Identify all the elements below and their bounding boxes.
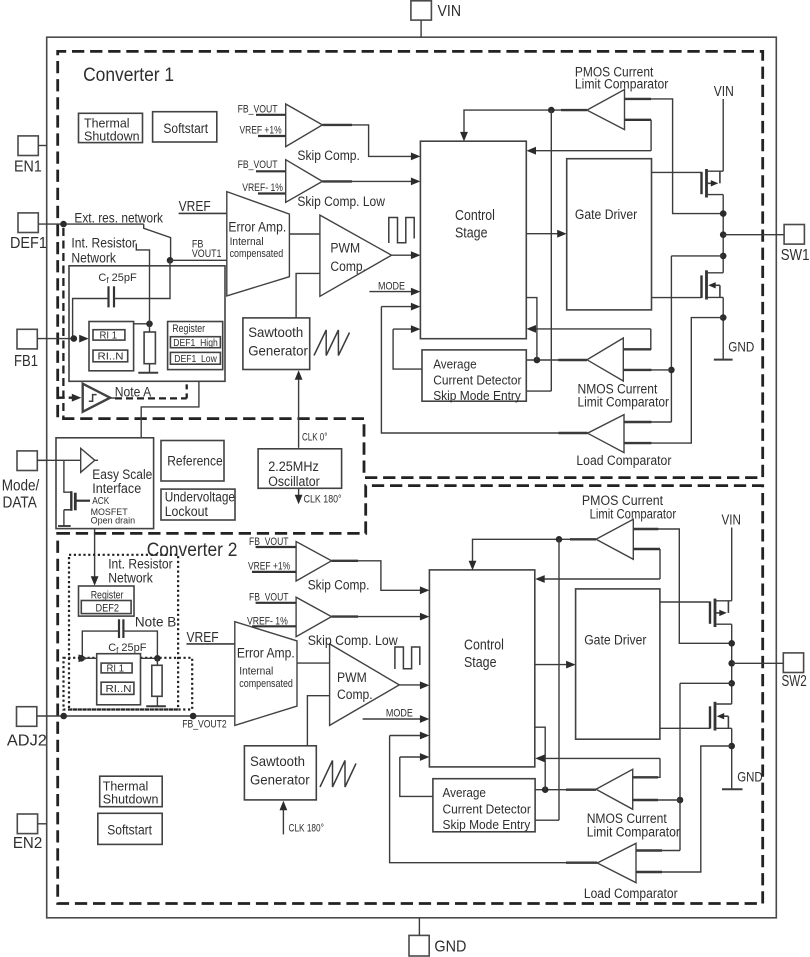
wire PMOS comp upper input sense conv1 — [625, 98, 652, 100]
PWM comparator conv2 — [330, 644, 400, 726]
wire NMOS comp upper input to control stage conv1 — [623, 348, 651, 350]
oscillator block — [258, 449, 342, 489]
wire skip comp low output conv1 — [322, 180, 352, 182]
wire PWM output conv2 — [399, 684, 420, 686]
svg-text:Network: Network — [108, 570, 153, 586]
wire PMOS comp output branch down to current detector conv1 — [526, 110, 551, 391]
wire load comp lower input to NMOS source conv2 — [636, 871, 662, 873]
svg-text:Shutdown: Shutdown — [103, 791, 159, 806]
wire NMOS source to ground conv1 — [722, 297, 724, 359]
skip comparator low conv2 — [296, 597, 331, 637]
pin DEF1 — [18, 213, 38, 233]
node dot PMOS sense conv2 — [728, 640, 735, 647]
svg-text:VREF +1%: VREF +1% — [240, 124, 282, 136]
dashed optional box left edge conv1 — [62, 228, 64, 418]
svg-text:Note B: Note B — [135, 614, 176, 630]
undervoltage lockout block — [161, 489, 235, 520]
svg-text:Comp.: Comp. — [337, 687, 373, 703]
svg-text:compensated: compensated — [239, 678, 293, 690]
svg-text:SW2: SW2 — [782, 673, 807, 690]
register block conv1 — [168, 322, 223, 370]
skip comparator conv1 — [286, 104, 323, 147]
gate driver conv1 — [567, 159, 652, 310]
pin SW1 — [784, 225, 804, 245]
error amplifier conv1 — [227, 192, 290, 296]
sawtooth generator conv2 — [244, 746, 316, 800]
control stage conv2 — [429, 570, 534, 767]
svg-text:Error Amp.: Error Amp. — [228, 219, 286, 235]
wire to SW2 pin — [732, 662, 784, 664]
PMOS transistor conv2 — [660, 601, 710, 603]
capacitor Cf conv1 — [107, 286, 109, 307]
svg-text:DEF1_Low: DEF1_Low — [174, 353, 217, 365]
node dot NMOS comp output conv1 — [534, 357, 541, 364]
hysteresis glyph note A — [89, 395, 97, 402]
wire FB1 into resistor ladder — [37, 338, 75, 340]
wire NMOS comp lower input sense conv2 — [633, 799, 658, 801]
skip comparator conv2 — [296, 542, 331, 582]
wire PMOS output branch to current detector conv2 — [535, 539, 559, 820]
sawtooth generator conv1 — [243, 318, 310, 370]
wire capacitor right to FB node conv1 — [114, 260, 170, 298]
svg-text:Stage: Stage — [464, 655, 497, 671]
wire ladder input conv2 — [79, 654, 89, 662]
wire VREF-1% input skip low conv1 — [258, 192, 286, 194]
wire register link to easy scale — [141, 381, 199, 438]
ground bar tap resistor conv2 — [146, 705, 166, 707]
svg-text:Shutdown: Shutdown — [84, 129, 140, 144]
wire error amp output conv2 — [297, 662, 330, 664]
NMOS current limit comparator conv1 — [587, 338, 623, 381]
svg-text:Load Comparator: Load Comparator — [584, 886, 678, 901]
svg-text:Register: Register — [172, 323, 205, 335]
register DEF2 — [81, 601, 131, 614]
average current detector block conv1 — [422, 350, 526, 401]
svg-text:MODE: MODE — [386, 708, 413, 720]
resistor RI..N conv1 — [93, 350, 128, 362]
wire NMOS drain sense line conv2 — [680, 683, 732, 850]
node dot PMOS comp output conv2 — [556, 536, 563, 543]
node dot sense junction conv2 — [677, 797, 684, 804]
load comparator conv2 — [597, 843, 636, 882]
dotted resistor network box conv2 — [69, 555, 178, 710]
wire MODE input conv1 — [369, 291, 411, 293]
svg-text:Register: Register — [91, 589, 124, 601]
softstart block conv2 — [98, 813, 162, 844]
wire FB_VOUT input conv1 — [256, 114, 286, 116]
node dot SW1 conv1 — [720, 231, 727, 238]
wire sawtooth to PWM comp conv2 — [307, 696, 329, 746]
wire FB node to error amp conv1 — [170, 259, 227, 261]
note A comparator conv1 — [83, 384, 110, 412]
svg-text:Converter 1: Converter 1 — [83, 65, 174, 86]
svg-text:Sawtooth: Sawtooth — [248, 324, 303, 340]
wire NMOS comp output conv2 — [566, 789, 596, 791]
wire tap riser conv1 — [136, 244, 149, 324]
svg-text:Limit Comparator: Limit Comparator — [587, 824, 681, 839]
resistor ladder box conv1 — [89, 322, 134, 371]
svg-text:Current Detector: Current Detector — [443, 801, 532, 816]
NMOS transistor conv1 — [652, 297, 702, 299]
node dot ADJ2 junction — [60, 713, 67, 720]
register DEF1_High conv1 — [170, 337, 220, 348]
wire skip comp output to control stage conv1 — [322, 124, 352, 126]
node dot NMOS sense conv1 — [720, 253, 727, 260]
svg-text:CLK 180°: CLK 180° — [289, 823, 324, 835]
register DEF1_Low conv1 — [170, 352, 220, 364]
svg-text:Ext. res. network: Ext. res. network — [74, 210, 163, 225]
register block conv2 — [79, 586, 135, 616]
wire skip comp low output conv2 — [332, 615, 359, 617]
svg-text:DEF1: DEF1 — [10, 235, 47, 252]
svg-text:RI 1: RI 1 — [107, 662, 125, 674]
svg-text:Int. Resistor: Int. Resistor — [71, 234, 136, 250]
svg-text:GND: GND — [728, 339, 754, 355]
svg-text:2.25MHz: 2.25MHz — [268, 459, 319, 475]
wire to SW1 pin — [723, 234, 784, 236]
svg-text:Note A: Note A — [115, 383, 152, 399]
wire NMOS comp lower input sense conv1 — [623, 369, 651, 371]
pin VIN (top) — [411, 1, 432, 20]
wire sawtooth to PWM comp conv1 — [296, 273, 320, 318]
NMOS transistor conv2 — [660, 727, 710, 729]
svg-text:ADJ2: ADJ2 — [7, 732, 47, 749]
wire capacitor left conv1 — [73, 299, 109, 339]
svg-text:Undervoltage: Undervoltage — [165, 489, 235, 505]
svg-text:Generator: Generator — [250, 771, 310, 787]
svg-text:Network: Network — [71, 250, 116, 266]
svg-text:FB1: FB1 — [14, 353, 38, 370]
svg-text:Limit Comparator: Limit Comparator — [575, 77, 669, 92]
ground symbol conv1 — [714, 359, 733, 361]
svg-text:SW1: SW1 — [781, 247, 810, 264]
wire control stage side branch conv2 — [535, 727, 545, 790]
svg-text:VREF +1%: VREF +1% — [248, 561, 290, 573]
svg-text:DEF1_High: DEF1_High — [173, 337, 218, 349]
svg-text:CLK 0°: CLK 0° — [302, 431, 327, 443]
tap resistor conv2 — [152, 665, 162, 696]
wire VIN rail conv1 — [722, 99, 724, 171]
wire DEF1 to resistor network — [38, 223, 143, 225]
control stage conv1 — [420, 141, 526, 339]
svg-text:VIN: VIN — [714, 84, 734, 100]
svg-text:Lockout: Lockout — [165, 504, 208, 520]
svg-text:PWM: PWM — [330, 241, 360, 257]
wire ladder to tap resistor conv1 — [134, 323, 150, 325]
node dot FB_VOUT1 — [167, 257, 174, 264]
wire load comp output to control stage conv2 — [566, 862, 597, 864]
capacitor Cf conv2 — [118, 619, 120, 638]
node dot DEF1 junction — [60, 221, 67, 228]
tap resistor conv1 — [144, 332, 155, 364]
node dot NMOS source conv1 — [720, 314, 727, 321]
svg-text:Gate Driver: Gate Driver — [575, 207, 638, 223]
PMOS current limit comparator conv2 — [596, 519, 633, 559]
svg-text:FB_VOUT: FB_VOUT — [238, 103, 278, 115]
svg-text:RI..N: RI..N — [106, 683, 132, 695]
wire skip comp output conv2 — [332, 560, 359, 562]
node dot sense junction conv1 — [668, 367, 675, 374]
wire load comp upper input conv1 — [624, 421, 651, 423]
skip comparator low conv1 — [286, 160, 323, 203]
PMOS transistor conv1 — [652, 171, 702, 173]
svg-text:Comp.: Comp. — [330, 259, 366, 275]
wire Mode/DATA input — [37, 459, 80, 461]
wire easy scale to register conv2 — [94, 529, 96, 579]
wire SW node column conv2 — [731, 624, 733, 704]
PMOS current limit comparator conv1 — [587, 90, 625, 130]
wire CLK 0 from oscillator to sawtooth conv1 — [298, 377, 300, 448]
svg-text:Control: Control — [464, 638, 504, 654]
svg-text:Limit Comparator: Limit Comparator — [590, 506, 677, 521]
svg-text:compensated: compensated — [230, 248, 284, 260]
pin EN1 — [18, 136, 38, 156]
wire ladder to tap resistor conv2 — [141, 657, 158, 659]
wire FB_VOUT input skip low conv1 — [256, 170, 286, 172]
svg-text:GND: GND — [434, 939, 466, 956]
sawtooth waveform glyph conv2 — [320, 761, 356, 788]
svg-text:Limit Comparator: Limit Comparator — [578, 395, 670, 410]
svg-text:CLK 180°: CLK 180° — [304, 493, 342, 505]
dotted feedback box conv2 — [64, 658, 193, 710]
svg-text:Gate Driver: Gate Driver — [584, 633, 647, 649]
wire NMOS drain sense line conv1 — [671, 256, 723, 422]
ground bar tap resistor conv1 — [138, 372, 158, 374]
Converter 1 dashed boundary — [58, 51, 763, 477]
wire current detector loop to control stage conv2 — [400, 757, 433, 796]
wire PMOS comp output conv2 — [570, 538, 596, 540]
Converter 2 dashed boundary — [58, 486, 763, 904]
pin Mode/DATA — [17, 451, 37, 471]
pin GND (bottom) — [409, 935, 429, 956]
NMOS current limit comparator conv2 — [596, 769, 633, 809]
wire error amp output to PWM comp conv1 — [289, 233, 320, 235]
svg-text:Softstart: Softstart — [107, 822, 152, 837]
thermal shutdown block conv2 — [100, 776, 163, 807]
dashed wire note A output — [110, 397, 115, 399]
svg-text:Reference: Reference — [167, 454, 223, 470]
svg-text:ACK: ACK — [92, 496, 109, 507]
resistor ladder box conv2 — [97, 654, 141, 705]
node dot NMOS sense conv2 — [728, 680, 735, 687]
PWM comparator conv1 — [320, 215, 392, 296]
int resistor network box conv1 — [69, 266, 225, 382]
wire PMOS comp lower input to control conv2 — [633, 548, 660, 550]
svg-text:Skip Comp.: Skip Comp. — [297, 148, 360, 164]
svg-text:Cf 25pF: Cf 25pF — [98, 272, 137, 285]
svg-text:Skip Comp. Low: Skip Comp. Low — [297, 194, 385, 210]
svg-text:VIN: VIN — [438, 3, 462, 20]
svg-text:Skip Comp. Low: Skip Comp. Low — [308, 633, 399, 649]
svg-text:Average: Average — [433, 356, 476, 371]
svg-text:FB_VOUT2: FB_VOUT2 — [182, 719, 227, 731]
svg-text:Mode/: Mode/ — [2, 478, 40, 495]
gate driver conv2 — [576, 589, 660, 739]
svg-text:Generator: Generator — [248, 343, 308, 359]
svg-text:FB_VOUT: FB_VOUT — [238, 159, 278, 171]
wire current detector loop to control stage conv1 — [393, 329, 422, 369]
wire PMOS comp lower input to control stage conv1 — [625, 119, 652, 121]
wire control stage to gate driver conv1 — [526, 233, 558, 235]
svg-text:EN2: EN2 — [13, 835, 42, 852]
wire VREF to error amp conv2 — [187, 643, 235, 645]
wire load comp upper input conv2 — [636, 849, 662, 851]
node dot NMOS comp output conv2 — [542, 786, 549, 793]
wire capacitor left conv2 — [82, 631, 119, 658]
wire SW node column conv1 — [722, 195, 724, 273]
resistor RI..N conv2 — [101, 682, 134, 694]
wire PMOS comparator output to control stage conv1 — [561, 109, 587, 111]
wire ext network jog to FB node — [144, 224, 171, 260]
pin EN2 — [17, 814, 37, 834]
node dot PMOS sense conv1 — [720, 210, 727, 217]
svg-text:Skip Comp.: Skip Comp. — [308, 577, 370, 593]
wire VIN rail conv2 — [731, 528, 733, 601]
PWM pulse waveform glyph conv2 — [395, 647, 420, 669]
svg-text:Skip Mode Entry: Skip Mode Entry — [443, 817, 531, 832]
svg-text:VIN: VIN — [722, 513, 741, 529]
wire control to gate driver conv2 — [535, 664, 567, 666]
svg-text:Control: Control — [455, 208, 495, 224]
pin ADJ2 — [17, 707, 37, 727]
wire NMOS comp upper input to control conv2 — [633, 776, 658, 778]
svg-text:Interface: Interface — [92, 481, 141, 497]
svg-text:VOUT1: VOUT1 — [192, 248, 222, 260]
dashed wire into note A comparator — [58, 397, 72, 399]
svg-text:RI 1: RI 1 — [100, 329, 118, 341]
wire CLK 180 into sawtooth conv2 — [282, 807, 284, 834]
svg-text:EN1: EN1 — [14, 159, 42, 176]
softstart block conv1 — [153, 112, 217, 142]
error amplifier conv2 — [235, 622, 297, 726]
wire NMOS source to ground conv2 — [731, 728, 733, 789]
svg-text:Current Detector: Current Detector — [433, 373, 522, 388]
wire capacitor right conv2 — [123, 631, 157, 658]
wire ADJ2 to error amp conv2 — [37, 715, 235, 717]
load comparator conv1 — [588, 415, 625, 453]
resistor RI 1 conv1 — [93, 330, 125, 340]
svg-text:DATA: DATA — [3, 494, 38, 511]
pin SW2 — [783, 653, 803, 673]
svg-text:PWM: PWM — [337, 670, 367, 686]
ACK open drain MOSFET — [64, 460, 71, 492]
wire CLK 180 output from oscillator — [298, 488, 300, 497]
resistor RI 1 conv2 — [101, 663, 132, 673]
svg-text:Internal: Internal — [239, 666, 273, 678]
node dot NMOS source conv2 — [728, 743, 735, 750]
reference block — [161, 441, 224, 482]
node dot SW2 node — [728, 660, 735, 667]
wire control stage side branch conv1 — [526, 298, 537, 360]
svg-text:Error Amp.: Error Amp. — [237, 646, 295, 662]
wire load comp lower input to NMOS source conv1 — [624, 442, 651, 444]
easy scale interface block — [56, 438, 154, 529]
wire load comp output to control stage conv1 — [559, 432, 588, 434]
svg-text:Open drain: Open drain — [91, 515, 136, 526]
svg-text:Load Comparator: Load Comparator — [576, 453, 671, 468]
node dot PMOS comp output conv1 — [548, 107, 555, 114]
thermal shutdown block conv1 — [79, 113, 143, 142]
svg-text:Stage: Stage — [455, 226, 488, 242]
wire MODE input conv2 — [363, 718, 421, 720]
easy scale input amplifier — [81, 448, 95, 472]
svg-text:MODE: MODE — [378, 281, 405, 293]
wire VREF to error amp conv1 — [179, 212, 227, 214]
svg-text:DEF2: DEF2 — [96, 602, 120, 614]
PWM pulse waveform glyph conv1 — [389, 218, 414, 244]
sawtooth waveform glyph conv1 — [314, 330, 350, 356]
wire PWM comp output conv1 — [392, 254, 412, 256]
pin FB1 — [17, 329, 37, 349]
wire NMOS comp output to current detector conv1 — [558, 359, 587, 361]
svg-text:Skip Mode Entry: Skip Mode Entry — [433, 388, 521, 403]
svg-text:GND: GND — [737, 769, 762, 785]
svg-text:Softstart: Softstart — [163, 121, 208, 136]
ground symbol conv2 — [722, 788, 743, 790]
svg-text:Oscillator: Oscillator — [268, 474, 320, 490]
svg-text:Internal: Internal — [230, 236, 264, 248]
average current detector block conv2 — [433, 779, 535, 832]
wire PMOS comp upper input sense conv2 — [633, 528, 658, 530]
svg-text:Sawtooth: Sawtooth — [250, 753, 305, 769]
wire VREF+1% input conv1 — [258, 135, 286, 137]
node dot FB_VOUT2 — [190, 713, 197, 720]
svg-text:RI..N: RI..N — [98, 351, 124, 363]
svg-text:Average: Average — [443, 785, 486, 800]
